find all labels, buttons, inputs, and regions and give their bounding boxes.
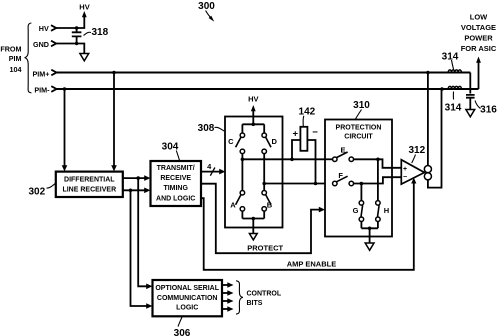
svg-text:AND LOGIC: AND LOGIC bbox=[156, 196, 195, 203]
svg-text:104: 104 bbox=[10, 65, 22, 74]
node PIM- branch to 302 bbox=[63, 87, 67, 91]
svg-text:VOLTAGE: VOLTAGE bbox=[461, 23, 496, 32]
svg-text:CIRCUIT: CIRCUIT bbox=[344, 134, 373, 141]
wire right rail bbox=[263, 154, 265, 191]
node PIM+ branch to 302 bbox=[112, 71, 116, 75]
switch H bbox=[376, 201, 381, 206]
wire line1 to switch E bbox=[242, 158, 332, 160]
wire LV node bbox=[469, 73, 471, 94]
svg-text:GND: GND bbox=[33, 40, 49, 49]
node F to G bbox=[360, 182, 364, 186]
svg-text:DIFFERENTIAL: DIFFERENTIAL bbox=[64, 176, 115, 183]
svg-text:B: B bbox=[267, 201, 273, 210]
ground 316 bbox=[466, 110, 475, 117]
switch G bbox=[359, 201, 364, 206]
capacitor 316 bbox=[466, 95, 475, 110]
block 308 switch matrix bbox=[225, 117, 283, 228]
svg-text:−: − bbox=[312, 127, 318, 138]
wire LV power arrow bbox=[478, 62, 480, 89]
svg-text:LOGIC: LOGIC bbox=[176, 305, 198, 312]
wire output to PIM+ bbox=[426, 71, 430, 75]
output pair circles bbox=[424, 166, 431, 173]
wire HV bbox=[56, 17, 84, 29]
svg-text:FOR ASIC: FOR ASIC bbox=[461, 44, 497, 53]
svg-text:306: 306 bbox=[174, 328, 191, 336]
inductor 314 top bbox=[448, 70, 461, 73]
svg-text:AMP ENABLE: AMP ENABLE bbox=[287, 259, 336, 268]
block 306 optional serial communication logic bbox=[153, 280, 223, 316]
svg-text:G: G bbox=[353, 206, 359, 215]
wire line2 to switch F bbox=[264, 183, 332, 185]
switch C bbox=[240, 133, 245, 138]
wire left rail bbox=[241, 154, 243, 191]
svg-text:HV: HV bbox=[248, 94, 258, 103]
svg-text:300: 300 bbox=[198, 1, 215, 12]
svg-text:+: + bbox=[293, 128, 299, 139]
node upper branch bbox=[136, 176, 140, 180]
svg-text:318: 318 bbox=[92, 27, 109, 38]
wire PIM- to 302 bbox=[64, 89, 66, 167]
svg-text:−: − bbox=[403, 174, 407, 181]
power HV arrow (318) bbox=[82, 11, 87, 17]
bus 304 to 308 width 4 bbox=[201, 171, 220, 173]
wire PIM+ to 302 bbox=[113, 73, 115, 167]
wire amp enable bbox=[201, 181, 414, 270]
svg-text:PIM+: PIM+ bbox=[33, 70, 50, 79]
block 302 differential line receiver bbox=[56, 172, 123, 197]
svg-text:COMMUNICATION: COMMUNICATION bbox=[157, 295, 218, 302]
switch A bbox=[240, 190, 245, 195]
svg-text:H: H bbox=[384, 206, 389, 215]
node lower branch bbox=[129, 189, 133, 193]
svg-text:PIM-: PIM- bbox=[34, 85, 50, 94]
inductor 314 bottom bbox=[448, 86, 461, 89]
svg-text:LOW: LOW bbox=[470, 13, 488, 22]
svg-text:POWER: POWER bbox=[464, 34, 493, 43]
switch F bbox=[333, 181, 338, 186]
bus PIM+ bbox=[57, 71, 471, 73]
svg-text:OPTIONAL SERIAL: OPTIONAL SERIAL bbox=[155, 285, 219, 292]
svg-text:CONTROL: CONTROL bbox=[247, 291, 282, 298]
block 310 protection circuit bbox=[325, 120, 392, 237]
node HV bar in 308 bbox=[242, 117, 264, 133]
svg-text:A: A bbox=[230, 201, 236, 210]
svg-text:+: + bbox=[403, 166, 407, 173]
svg-text:314: 314 bbox=[442, 52, 459, 63]
svg-text:142: 142 bbox=[299, 107, 316, 118]
svg-text:310: 310 bbox=[353, 100, 370, 111]
svg-text:BITS: BITS bbox=[247, 300, 263, 307]
node line2 at right rail bbox=[262, 182, 266, 186]
wire protect bar bbox=[242, 211, 264, 233]
comparator 312 bbox=[401, 160, 424, 184]
wire output to PIM- bbox=[440, 87, 444, 91]
wire 304 to protection circuit bbox=[201, 184, 320, 254]
svg-text:FROM: FROM bbox=[0, 44, 21, 53]
ground 310 triangle bbox=[365, 243, 374, 250]
wire 302 to 304 upper bbox=[123, 177, 146, 179]
svg-text:PROTECT: PROTECT bbox=[247, 244, 283, 253]
wire F to comparator minus bbox=[354, 177, 402, 183]
node line1 at left rail bbox=[241, 158, 245, 162]
svg-text:TIMING: TIMING bbox=[163, 185, 188, 192]
switch B bbox=[262, 190, 267, 195]
block 304 transmit receive timing and logic bbox=[151, 161, 202, 206]
node E to H bbox=[376, 158, 380, 162]
wire line1 into box (already) bbox=[325, 158, 332, 160]
wire G/H ground bar bbox=[361, 222, 378, 243]
wire serial A bbox=[138, 178, 147, 286]
svg-text:F: F bbox=[338, 171, 343, 180]
svg-text:C: C bbox=[228, 137, 234, 146]
ground (318 circuit) bbox=[80, 54, 89, 61]
node HV/cap bbox=[75, 26, 78, 29]
wire serial B bbox=[131, 190, 148, 306]
wire 302 to 304 lower bbox=[123, 189, 146, 191]
svg-text:308: 308 bbox=[198, 123, 215, 134]
svg-text:HV: HV bbox=[39, 24, 49, 33]
svg-text:312: 312 bbox=[408, 145, 425, 156]
svg-text:TRANSMIT/: TRANSMIT/ bbox=[157, 165, 195, 172]
wire E to comparator plus bbox=[354, 159, 402, 168]
svg-text:302: 302 bbox=[29, 186, 46, 197]
capacitor 318 bbox=[72, 28, 82, 44]
wire H drop bbox=[377, 159, 379, 200]
switch D bbox=[262, 133, 267, 138]
svg-text:LINE RECEIVER: LINE RECEIVER bbox=[62, 187, 116, 194]
node GND/cap bbox=[75, 42, 78, 45]
svg-text:PIM: PIM bbox=[9, 54, 22, 63]
svg-text:RECEIVE: RECEIVE bbox=[160, 175, 191, 182]
control bits arrows bbox=[222, 284, 229, 286]
svg-text:HV: HV bbox=[79, 2, 89, 11]
svg-text:314: 314 bbox=[445, 103, 462, 114]
wire GND bbox=[56, 44, 84, 54]
brace FROM PIM 104 bbox=[25, 23, 32, 93]
transducer 142 bbox=[292, 140, 316, 184]
switch E bbox=[333, 157, 338, 162]
brace control bits bbox=[236, 281, 243, 314]
bus PIM- bbox=[57, 88, 479, 90]
wire G drop bbox=[360, 184, 362, 201]
svg-text:D: D bbox=[271, 137, 277, 146]
ground protect triangle bbox=[249, 234, 257, 240]
svg-text:PROTECTION: PROTECTION bbox=[336, 125, 382, 132]
svg-text:E: E bbox=[340, 145, 345, 154]
svg-text:316: 316 bbox=[480, 105, 497, 116]
